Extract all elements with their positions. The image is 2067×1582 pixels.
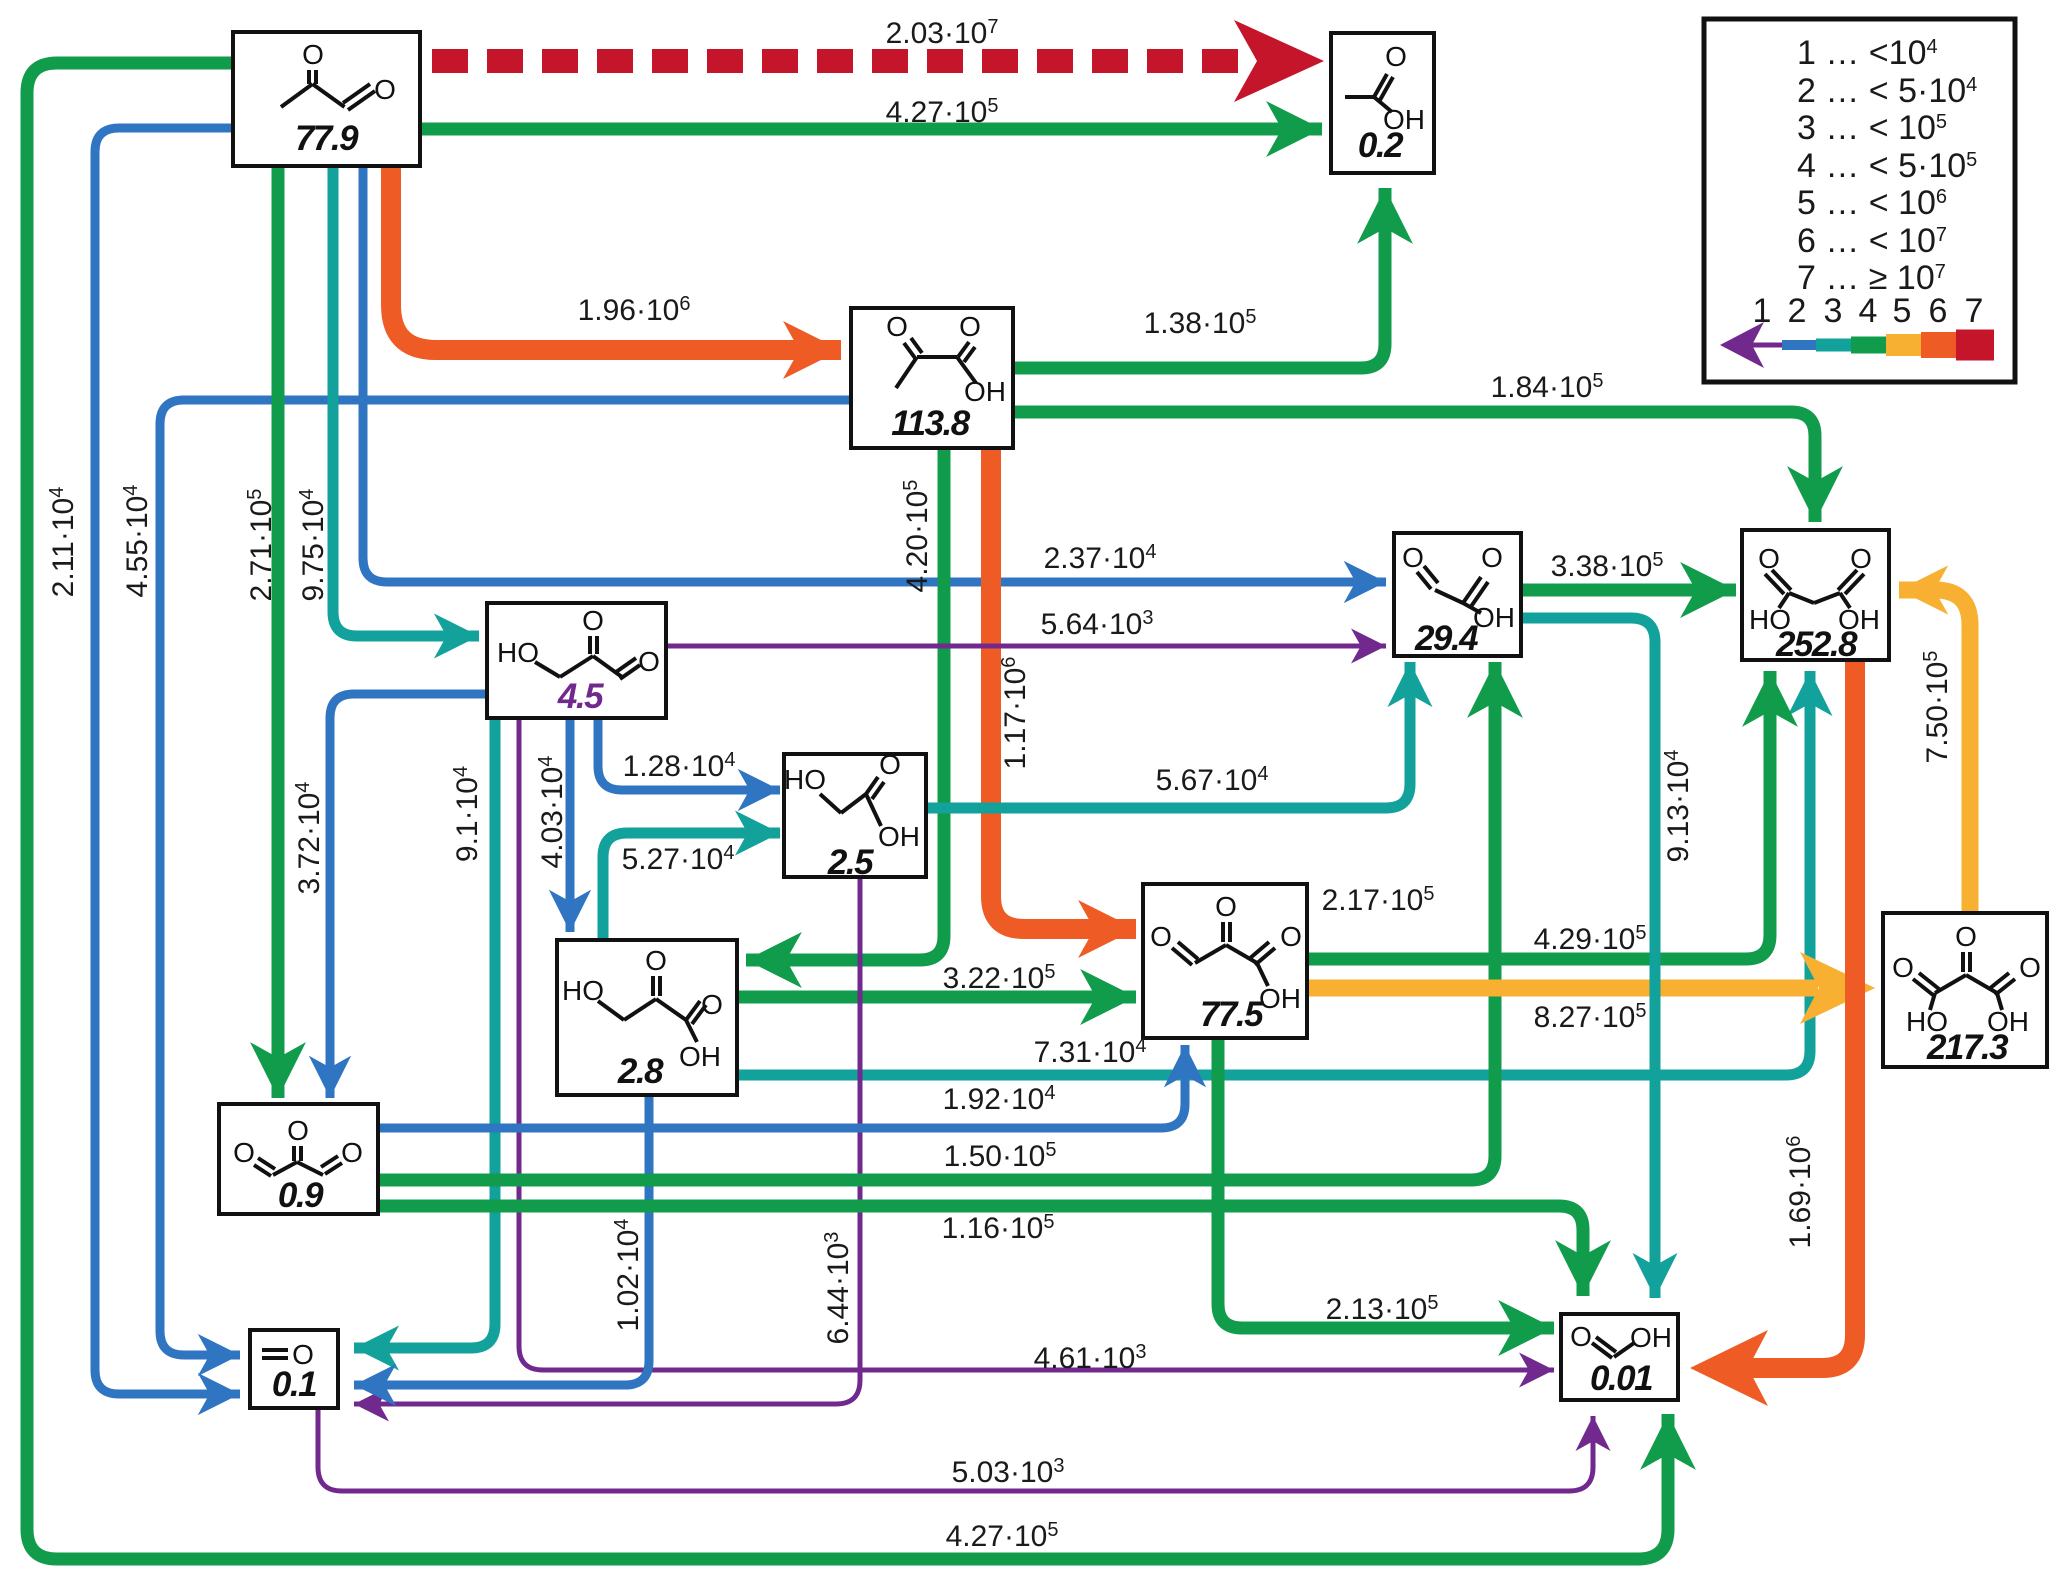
svg-text:O: O — [701, 989, 723, 1020]
svg-text:3: 3 — [1824, 292, 1843, 330]
svg-text:1.02·104: 1.02·104 — [611, 1219, 645, 1332]
wire green GA right to oxalic acid 3.38e5 — [1521, 584, 1736, 597]
svg-text:252.8: 252.8 — [1775, 625, 1858, 664]
svg-text:O: O — [1402, 542, 1424, 573]
box formic acid 0.01 — [1561, 1314, 1678, 1400]
svg-text:0.1: 0.1 — [272, 1365, 316, 1404]
svg-text:1.50·105: 1.50·105 — [944, 1139, 1057, 1173]
wire green MSA bottom to formic acid left 2.13e5 — [1218, 1038, 1554, 1328]
svg-text:O: O — [886, 311, 908, 342]
svg-text:0.2: 0.2 — [1358, 126, 1404, 165]
svg-text:77.5: 77.5 — [1200, 995, 1264, 1034]
svg-text:5.03·103: 5.03·103 — [952, 1455, 1065, 1489]
svg-text:2.5: 2.5 — [827, 843, 874, 882]
box mesoxalic semialdehyde 77.5 — [1143, 884, 1307, 1038]
wire green MDA right to glyoxylic acid bottom 1.50e5 — [378, 662, 1495, 1180]
wire yellow MOA top to oxalic acid right 7.50e5 — [1899, 590, 1970, 913]
svg-text:O: O — [879, 749, 901, 780]
svg-text:1.38·105: 1.38·105 — [1144, 306, 1257, 340]
svg-text:5.64·103: 5.64·103 — [1041, 607, 1154, 641]
svg-text:O: O — [2019, 952, 2041, 983]
legend box — [1704, 19, 2015, 382]
svg-text:6: 6 — [1929, 292, 1948, 330]
svg-text:0.01: 0.01 — [1590, 1359, 1652, 1398]
svg-text:O: O — [341, 1137, 363, 1168]
svg-text:1.96·106: 1.96·106 — [578, 293, 691, 327]
wire purple GCA bottom to formaldehyde 6.44e3 — [354, 877, 860, 1404]
svg-text:2.03·107: 2.03·107 — [886, 16, 999, 50]
svg-text:0.9: 0.9 — [278, 1176, 324, 1215]
svg-text:7.31·104: 7.31·104 — [1034, 1035, 1147, 1069]
svg-text:O: O — [1892, 952, 1914, 983]
wire blue HMG bottom to hydroxypyruvic acid 4.03e4 — [566, 718, 575, 932]
svg-text:4.27·105: 4.27·105 — [946, 1519, 1059, 1553]
svg-text:4: 4 — [1859, 292, 1878, 330]
box formaldehyde 0.1 — [250, 1330, 338, 1408]
svg-text:3 … < 105: 3 … < 105 — [1797, 109, 1947, 147]
wire green PA bottom to hydroxypyruvic acid 4.20e5 — [746, 448, 944, 960]
box malonaldehyde 0.9 — [219, 1104, 378, 1215]
svg-text:9.1·104: 9.1·104 — [450, 766, 484, 862]
wire blue MDA right to mesoxalic semialdehyde bottom 1.92e4 — [378, 1045, 1185, 1128]
box pyruvic acid 113.8 — [851, 308, 1013, 448]
wire blue PA left to formaldehyde 4.55e4 — [160, 400, 851, 1355]
wire green MG bottom to malonaldehyde 2.71e5 — [272, 166, 285, 1098]
svg-text:OH: OH — [1473, 602, 1515, 633]
svg-text:6 … < 107: 6 … < 107 — [1797, 222, 1947, 260]
svg-text:77.9: 77.9 — [295, 119, 359, 158]
svg-text:OH: OH — [679, 1041, 721, 1072]
svg-text:5.67·104: 5.67·104 — [1156, 763, 1269, 797]
svg-text:29.4: 29.4 — [1414, 619, 1478, 658]
wire teal GCA right to glyoxylic acid bottom 5.67e4 — [926, 662, 1410, 808]
svg-text:O: O — [1280, 921, 1302, 952]
svg-text:O: O — [1481, 542, 1503, 573]
svg-text:4.27·105: 4.27·105 — [886, 95, 999, 129]
svg-text:2.8: 2.8 — [617, 1052, 664, 1091]
svg-text:OH: OH — [1630, 1322, 1672, 1353]
svg-text:1.92·104: 1.92·104 — [943, 1082, 1056, 1116]
wire purple FA bottom to formic acid bottom 5.03e3 — [318, 1408, 1593, 1491]
svg-text:4.20·105: 4.20·105 — [900, 480, 934, 593]
svg-text:6.44·103: 6.44·103 — [821, 1232, 855, 1345]
svg-text:O: O — [1955, 921, 1977, 952]
svg-text:O: O — [302, 39, 324, 70]
svg-text:HO: HO — [562, 975, 604, 1006]
wire green MG to acetic acid 4.27e5 top — [422, 123, 1322, 136]
svg-text:8.27·105: 8.27·105 — [1534, 1000, 1647, 1034]
wire teal MG bottom to hydroxymethylglyoxal 9.75e4 — [333, 166, 479, 636]
svg-text:5: 5 — [1893, 292, 1912, 330]
wire green HPA right to mesoxalic semialdehyde 3.22e5 — [737, 991, 1136, 1004]
svg-text:2.71·105: 2.71·105 — [244, 489, 278, 602]
svg-text:2.17·105: 2.17·105 — [1322, 883, 1435, 917]
wire green MDA right to formic acid top 1.16e5 — [378, 1206, 1583, 1296]
svg-text:O: O — [638, 646, 660, 677]
svg-text:1 … <104: 1 … <104 — [1797, 34, 1938, 72]
svg-text:4.55·104: 4.55·104 — [120, 485, 154, 598]
svg-text:9.75·104: 9.75·104 — [296, 489, 330, 602]
wire teal GA right to formic acid top 9.13e4 — [1521, 618, 1655, 1298]
svg-text:O: O — [1215, 891, 1237, 922]
box mesoxalic acid 217.3 — [1883, 913, 2047, 1067]
svg-text:7.50·105: 7.50·105 — [1920, 651, 1954, 764]
wire orange OA bottom to formic acid right 1.69e6 — [1690, 660, 1855, 1406]
wire green PA right to acetic acid bottom 1.38e5 — [1013, 188, 1385, 368]
svg-text:2.13·105: 2.13·105 — [1326, 1292, 1439, 1326]
svg-text:O: O — [959, 311, 981, 342]
wire purple HMG right to glyoxylic acid 5.64e3 — [666, 644, 1386, 649]
box methylglyoxal 77.9 — [233, 32, 420, 166]
box hydroxypyruvic acid 2.8 — [557, 940, 737, 1095]
svg-text:O: O — [374, 74, 396, 105]
svg-text:4 … < 5·105: 4 … < 5·105 — [1797, 147, 1977, 185]
svg-text:O: O — [582, 605, 604, 636]
box glyoxylic acid 29.4 — [1394, 533, 1521, 658]
svg-text:9.13·104: 9.13·104 — [1661, 750, 1695, 863]
svg-text:O: O — [1385, 41, 1407, 72]
svg-text:5 … < 106: 5 … < 106 — [1797, 184, 1947, 222]
svg-text:5.27·104: 5.27·104 — [622, 842, 735, 876]
svg-text:O: O — [287, 1115, 309, 1146]
svg-text:O: O — [1758, 543, 1780, 574]
wire green PA right to oxalic acid top 1.84e5 — [1013, 412, 1815, 522]
wire orange PA bottom to mesoxalic semialdehyde 1.17e6 — [991, 448, 1136, 929]
svg-text:3.22·105: 3.22·105 — [943, 961, 1056, 995]
wire teal HPA right to oxalic acid bottom 7.31e4 — [737, 671, 1810, 1075]
box acetic acid 0.2 — [1331, 33, 1434, 173]
svg-text:1.69·106: 1.69·106 — [1783, 1136, 1817, 1249]
wire blue HMG bottom to glycolic acid 1.28e4 — [598, 718, 780, 790]
box hydroxymethylglyoxal 4.5 — [487, 603, 666, 718]
svg-text:4.61·103: 4.61·103 — [1034, 1341, 1147, 1375]
svg-text:4.03·104: 4.03·104 — [535, 756, 569, 869]
wire blue MG bottom to glyoxylic acid 2.37e4 — [363, 166, 1386, 582]
svg-text:OH: OH — [1259, 983, 1301, 1014]
svg-text:2: 2 — [1788, 292, 1807, 330]
svg-text:4.5: 4.5 — [557, 677, 604, 716]
wire red dashed MG to acetic acid 2.03e7 — [432, 20, 1324, 102]
svg-text:O: O — [233, 1137, 255, 1168]
svg-text:O: O — [1850, 543, 1872, 574]
svg-text:2.11·104: 2.11·104 — [46, 487, 80, 598]
wire green MG left down bottom to formic acid 4.27e5 — [27, 63, 1668, 1559]
wire teal HMG bottom to formaldehyde 9.1e4 — [354, 718, 495, 1348]
svg-text:7: 7 — [1965, 292, 1984, 330]
svg-text:2 … < 5·104: 2 … < 5·104 — [1797, 72, 1977, 110]
svg-text:HO: HO — [784, 764, 826, 795]
wire blue HMG left to malonaldehyde 3.72e4 — [330, 694, 487, 1098]
box oxalic acid 252.8 — [1742, 530, 1889, 664]
svg-text:OH: OH — [964, 376, 1006, 407]
legend text lines — [1797, 34, 1977, 297]
wire green MSA right to oxalic acid bottom 2.17e5 4.29e5 — [1307, 671, 1770, 959]
legend scale numbers — [1753, 292, 1984, 330]
svg-text:O: O — [645, 945, 667, 976]
svg-text:217.3: 217.3 — [1926, 1028, 2009, 1067]
svg-text:3.38·105: 3.38·105 — [1551, 549, 1664, 583]
svg-text:1.84·105: 1.84·105 — [1491, 370, 1604, 404]
svg-text:1.28·104: 1.28·104 — [623, 749, 736, 783]
wire orange MG bottom to pyruvic acid 1.96e6 — [391, 166, 841, 350]
svg-text:HO: HO — [497, 637, 539, 668]
box glycolic acid 2.5 — [784, 749, 926, 882]
svg-text:4.29·105: 4.29·105 — [1534, 922, 1647, 956]
svg-text:1.16·105: 1.16·105 — [942, 1211, 1055, 1245]
wire teal HPA top to glycolic acid 5.27e4 — [603, 833, 780, 940]
wire yellow MSA right to mesoxalic acid 8.27e5 — [1307, 952, 1875, 1024]
svg-text:OH: OH — [878, 821, 920, 852]
svg-text:2.37·104: 2.37·104 — [1044, 541, 1157, 575]
svg-text:O: O — [1150, 921, 1172, 952]
svg-text:3.72·104: 3.72·104 — [292, 782, 326, 895]
wire blue HPA bottom to formaldehyde 1.02e4 — [354, 1095, 649, 1385]
wire blue MG left to formaldehyde 2.11e4 — [95, 128, 240, 1394]
svg-text:O: O — [1570, 1321, 1592, 1352]
svg-text:1.17·106: 1.17·106 — [998, 657, 1032, 770]
legend graded arrow — [1720, 322, 1994, 368]
wire purple HMG bottom to formic acid 4.61e3 — [519, 718, 1554, 1370]
svg-text:113.8: 113.8 — [891, 404, 971, 443]
